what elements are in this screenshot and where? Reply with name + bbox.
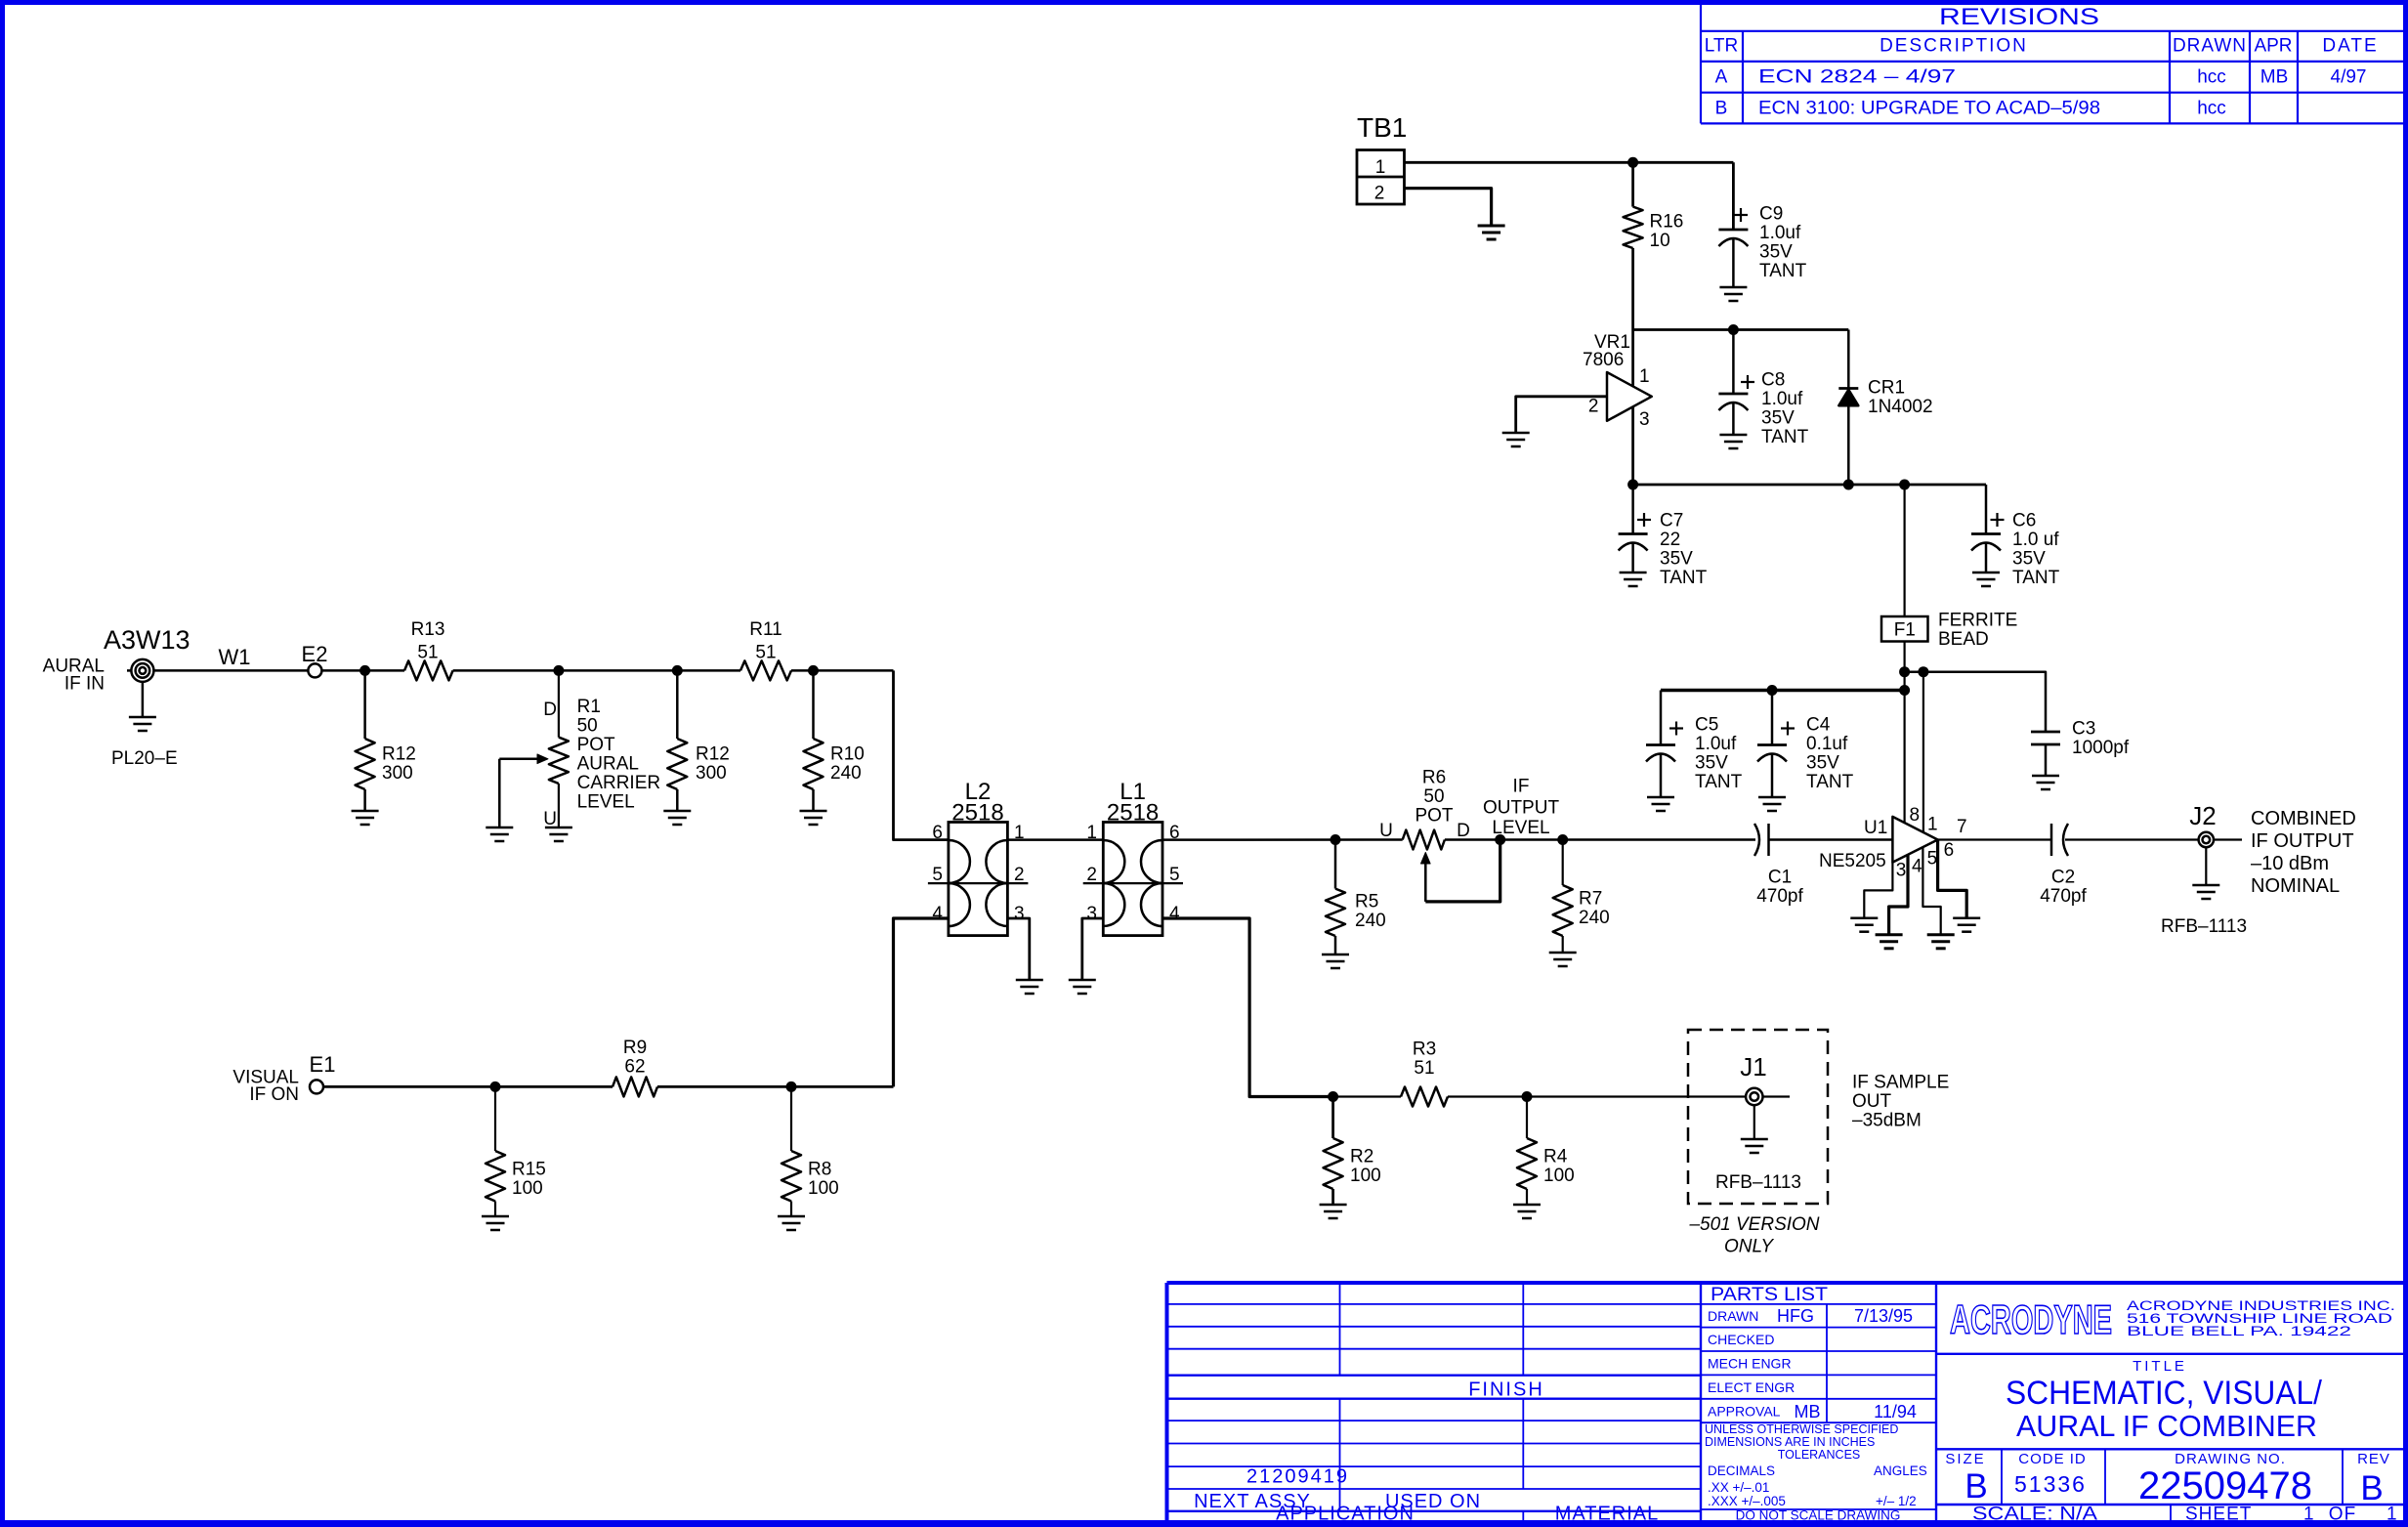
resistor R11 [740, 660, 791, 680]
svg-text:R8: R8 [808, 1160, 831, 1180]
svg-text:R6: R6 [1422, 768, 1446, 788]
wire +6V output rail [1633, 484, 1986, 487]
svg-text:11/94: 11/94 [1874, 1402, 1917, 1421]
voltage regulator VR1 7806 [1607, 372, 1652, 421]
svg-text:R12: R12 [696, 744, 730, 765]
potentiometer R1 [549, 738, 569, 784]
svg-text:2518: 2518 [951, 800, 1003, 827]
wire R2 to ground [1331, 1189, 1334, 1205]
ground R12b [663, 810, 691, 813]
capacitor C7 [1619, 532, 1648, 535]
wire R7 to ground [1562, 936, 1564, 953]
svg-text:51336: 51336 [2014, 1471, 2087, 1497]
ground U1 pin3 [1850, 916, 1878, 919]
svg-text:F1: F1 [1894, 620, 1916, 641]
svg-text:AURAL IF COMBINER: AURAL IF COMBINER [2016, 1409, 2317, 1443]
svg-text:470pf: 470pf [1756, 886, 1803, 907]
svg-text:REV: REV [2357, 1451, 2390, 1467]
wire R8 down [790, 1086, 792, 1151]
svg-text:C3: C3 [2072, 719, 2095, 740]
wire TB1 node to R16 [1631, 162, 1634, 206]
svg-text:IF OUTPUT: IF OUTPUT [2251, 830, 2354, 852]
svg-text:1.0uf: 1.0uf [1761, 389, 1803, 409]
J1 dashed option box [1688, 1030, 1828, 1204]
svg-text:100: 100 [808, 1178, 839, 1199]
resistor R2 [1324, 1138, 1343, 1189]
svg-text:HFG: HFG [1777, 1306, 1814, 1326]
capacitor C6 [1971, 532, 2001, 535]
VR1 label [1583, 332, 1630, 370]
resistor R16 [1624, 207, 1643, 248]
junction R8 [786, 1082, 797, 1092]
svg-text:COMBINED: COMBINED [2251, 808, 2356, 829]
svg-text:BEAD: BEAD [1938, 629, 1989, 650]
title block outer frame [1167, 1283, 2404, 1524]
L1 label [1107, 779, 1159, 827]
svg-text:6: 6 [1944, 840, 1955, 861]
ground A3W13 [129, 716, 156, 719]
svg-text:IF IN: IF IN [64, 674, 105, 695]
svg-text:C6: C6 [2012, 511, 2036, 531]
svg-text:–35dBM: –35dBM [1852, 1111, 1922, 1131]
C9 wire to ground [1732, 238, 1735, 287]
svg-text:R10: R10 [830, 744, 865, 765]
svg-text:240: 240 [1579, 908, 1610, 928]
svg-text:R1: R1 [577, 697, 601, 717]
svg-text:2: 2 [1588, 397, 1599, 417]
junction R6 wiper return [1495, 834, 1505, 845]
svg-text:7: 7 [1957, 817, 1967, 837]
REV cell [2357, 1451, 2390, 1507]
svg-text:LTR: LTR [1705, 36, 1738, 57]
CODE ID cell [2014, 1451, 2087, 1497]
junction R15 [490, 1082, 501, 1092]
transformer L2 [928, 823, 1029, 936]
svg-text:hcc: hcc [2197, 98, 2226, 118]
svg-text:TITLE: TITLE [2133, 1358, 2187, 1375]
svg-text:22509478: 22509478 [2138, 1464, 2312, 1507]
VISUAL IF ON label [232, 1068, 299, 1106]
wire L1 pin4 to sample line [1162, 918, 1333, 1097]
ground R4 [1513, 1204, 1541, 1207]
wire R6 wiper jog [1425, 840, 1500, 902]
svg-text:51: 51 [417, 643, 438, 663]
svg-text:2: 2 [1014, 865, 1025, 885]
wire R15 to ground [494, 1202, 496, 1217]
ground C9 [1719, 286, 1747, 289]
svg-text:OUTPUT: OUTPUT [1483, 798, 1560, 819]
connector J1 [1746, 1088, 1762, 1105]
wire J2 to ground [2205, 847, 2207, 885]
tolerance note block [1705, 1422, 1927, 1508]
svg-text:CARRIER: CARRIER [577, 773, 661, 793]
svg-text:100: 100 [1543, 1166, 1575, 1186]
junction supply rail end [1899, 685, 1910, 696]
wire TB1 pin2 to ground [1405, 189, 1492, 226]
svg-text:ECN 2824 – 4/97: ECN 2824 – 4/97 [1758, 67, 1956, 88]
svg-text:IF SAMPLE: IF SAMPLE [1852, 1073, 1949, 1093]
SIZE cell [1945, 1451, 1987, 1506]
svg-text:.XXX +/–.005: .XXX +/–.005 [1708, 1494, 1786, 1508]
resistor R13 [404, 660, 453, 680]
svg-text:2518: 2518 [1107, 800, 1159, 827]
svg-text:E2: E2 [302, 642, 328, 666]
svg-text:240: 240 [1355, 911, 1386, 931]
resistor R12 (right) [667, 739, 687, 789]
svg-text:NOMINAL: NOMINAL [2251, 875, 2340, 897]
parts list column grid [1701, 1283, 1936, 1524]
svg-text:DO NOT SCALE DRAWING: DO NOT SCALE DRAWING [1736, 1508, 1901, 1523]
svg-text:PL20–E: PL20–E [111, 748, 178, 769]
svg-text:4: 4 [1169, 904, 1180, 924]
wire CR1 to +6V rail [1847, 405, 1850, 485]
svg-text:100: 100 [512, 1178, 543, 1199]
ground J2 [2192, 884, 2219, 887]
svg-text:B: B [1964, 1467, 1987, 1506]
svg-text:U: U [1379, 821, 1393, 841]
wire R7 down [1562, 840, 1564, 886]
capacitor C3 [2031, 732, 2060, 744]
wire rail to F1 [1903, 485, 1905, 616]
svg-text:R5: R5 [1355, 892, 1378, 912]
junction R5 [1331, 834, 1341, 845]
svg-text:DIMENSIONS ARE IN INCHES: DIMENSIONS ARE IN INCHES [1705, 1435, 1875, 1449]
svg-text:U1: U1 [1864, 818, 1887, 838]
wire R4 to ground [1526, 1189, 1528, 1205]
junction VR1 out / C7 [1627, 480, 1638, 490]
terminal block TB1 [1357, 150, 1405, 205]
resistor R8 [782, 1151, 801, 1202]
wire R1 top lead [558, 670, 560, 737]
R11 value label [749, 619, 782, 663]
svg-text:APPLICATION: APPLICATION [1276, 1504, 1415, 1525]
svg-text:1000pf: 1000pf [2072, 738, 2130, 758]
svg-text:1: 1 [1639, 366, 1650, 387]
wire VR1 pin2 input [1516, 397, 1607, 433]
svg-text:A3W13: A3W13 [104, 625, 190, 655]
wire A3W13 stub left [127, 669, 131, 672]
DRAWN row [1708, 1306, 1913, 1326]
svg-text:RFB–1113: RFB–1113 [1715, 1172, 1801, 1193]
wire CR1 from input rail [1847, 330, 1850, 391]
svg-text:R11: R11 [749, 619, 782, 640]
ground C8 [1719, 434, 1747, 437]
svg-text:C1: C1 [1768, 868, 1792, 888]
svg-text:W1: W1 [219, 645, 251, 669]
wire C3 branch [1905, 672, 2046, 732]
svg-text:DECIMALS: DECIMALS [1708, 1463, 1775, 1478]
svg-text:R2: R2 [1350, 1147, 1373, 1167]
wire R2 node to R3 [1333, 1095, 1401, 1097]
svg-text:TANT: TANT [1761, 427, 1809, 447]
svg-text:POT: POT [577, 735, 615, 755]
svg-text:51: 51 [1414, 1058, 1434, 1079]
wire U1 pin8 supply [1903, 691, 1905, 824]
wire R8 to ground [790, 1202, 792, 1217]
svg-text:0.1uf: 0.1uf [1806, 734, 1848, 754]
ground C7 [1620, 572, 1647, 574]
ground C5 [1647, 796, 1674, 799]
wire E2 to R13 [321, 669, 404, 672]
R3 value label [1413, 1039, 1436, 1080]
svg-text:R16: R16 [1650, 211, 1684, 232]
wire J1 stub right [1763, 1095, 1791, 1097]
svg-text:240: 240 [830, 763, 862, 784]
svg-text:1: 1 [1375, 157, 1386, 178]
svg-text:22: 22 [1660, 530, 1680, 550]
svg-text:3: 3 [1014, 904, 1025, 924]
ground C6 [1972, 572, 2000, 574]
svg-text:51: 51 [755, 643, 776, 663]
wire R12a to ground [363, 789, 366, 811]
svg-text:SCHEMATIC, VISUAL/: SCHEMATIC, VISUAL/ [2006, 1375, 2323, 1412]
svg-text:50: 50 [1423, 786, 1444, 807]
svg-text:ECN 3100: UPGRADE TO ACAD–: ECN 3100: UPGRADE TO ACAD–5/98 [1758, 98, 2100, 118]
svg-text:RFB–1113: RFB–1113 [2161, 916, 2247, 937]
svg-text:IF: IF [1513, 777, 1530, 797]
svg-text:MECH ENGR: MECH ENGR [1708, 1356, 1792, 1372]
wire L1 pin3 to ground [1082, 918, 1104, 980]
ground R10 [800, 810, 827, 813]
svg-text:10: 10 [1650, 231, 1670, 251]
svg-text:APR: APR [2254, 36, 2292, 57]
wire R11 to corner [791, 669, 894, 672]
svg-text:62: 62 [624, 1057, 645, 1078]
ground L1 pin3 [1069, 979, 1096, 982]
svg-text:U: U [543, 809, 557, 829]
wire bypass rail C5-C4 [1661, 689, 1905, 692]
wire E1 to R9 [323, 1085, 613, 1088]
svg-text:R4: R4 [1543, 1147, 1568, 1167]
svg-text:300: 300 [382, 763, 413, 784]
revision row B [1715, 98, 2226, 118]
wire U1 output to C2 [1938, 838, 2051, 840]
wire J2 stub right [2214, 838, 2242, 840]
R9 value label [623, 1038, 647, 1078]
AURAL IF IN label [43, 657, 105, 695]
svg-text:R7: R7 [1579, 889, 1602, 910]
svg-text:MATERIAL: MATERIAL [1555, 1504, 1660, 1525]
svg-text:35V: 35V [1761, 408, 1795, 429]
svg-text:100: 100 [1350, 1166, 1381, 1186]
transformer L1 [1083, 823, 1183, 936]
resistor R7 [1553, 885, 1573, 936]
svg-text:A: A [1715, 67, 1728, 88]
svg-text:7806: 7806 [1583, 350, 1624, 370]
revision row A [1715, 67, 2367, 88]
resistor R4 [1517, 1138, 1537, 1189]
R6 value label [1415, 768, 1453, 827]
svg-text:TANT: TANT [2012, 568, 2060, 588]
wire R6 to C1 node [1445, 838, 1755, 841]
svg-text:7/13/95: 7/13/95 [1854, 1306, 1913, 1326]
wire VR1 pin3 to +6V rail [1631, 406, 1634, 485]
svg-text:PARTS LIST: PARTS LIST [1711, 1285, 1828, 1305]
svg-text:APPROVAL: APPROVAL [1708, 1404, 1781, 1420]
wire U1 pin3 to ground [1864, 863, 1892, 918]
resistor R5 [1326, 889, 1345, 936]
wire U1 pin1 supply [1922, 672, 1924, 832]
C5 polarity + [1669, 727, 1683, 729]
C9 polarity + [1734, 214, 1748, 216]
wire L2 pin1 to L1 pin1 [1007, 838, 1103, 841]
wire L2 pin3 to ground [1007, 918, 1029, 980]
C7 wire to ground [1631, 543, 1634, 573]
svg-text:21209419: 21209419 [1246, 1466, 1349, 1488]
-501 VERSION ONLY note [1688, 1214, 1819, 1257]
junction F1 rail [1899, 480, 1910, 490]
terminal E2 [308, 663, 321, 677]
C7 polarity + [1637, 519, 1651, 521]
svg-text:R15: R15 [512, 1160, 546, 1180]
wire C2 to J2 [2065, 838, 2199, 840]
svg-text:FERRITE: FERRITE [1938, 611, 2017, 631]
svg-text:2: 2 [1086, 865, 1097, 885]
C2 value label [2040, 868, 2087, 908]
svg-text:5: 5 [1169, 865, 1180, 885]
ground U1 pin6 [1953, 916, 1980, 919]
wire C6 from rail [1985, 485, 1988, 534]
capacitor C2 [2051, 824, 2068, 856]
svg-text:1N4002: 1N4002 [1868, 397, 1933, 417]
junction CR1 rail [1843, 480, 1854, 490]
svg-text:IF ON: IF ON [249, 1084, 299, 1105]
ground U1 pin4 [1876, 933, 1903, 936]
wire U1 pin6 to ground [1938, 840, 1967, 918]
svg-text:CHECKED: CHECKED [1708, 1332, 1774, 1347]
svg-text:1.0uf: 1.0uf [1759, 223, 1801, 243]
junction R12b [672, 665, 683, 676]
svg-text:D: D [1457, 821, 1470, 841]
svg-text:C7: C7 [1660, 511, 1683, 531]
C4 wire to ground [1771, 754, 1774, 797]
wire L1 pin6 to R5 node [1162, 838, 1403, 841]
resistor R3 [1401, 1087, 1448, 1107]
wire R10 to ground [812, 789, 815, 811]
wire R13 to R1 node [453, 669, 559, 672]
svg-text:DESCRIPTION: DESCRIPTION [1880, 36, 2028, 57]
wire R1 bottom lead [558, 784, 560, 827]
svg-text:4/97: 4/97 [2331, 67, 2367, 88]
wire R12b down [676, 670, 679, 739]
ground L2 pin3 [1016, 979, 1043, 982]
svg-text:MB: MB [2260, 67, 2289, 88]
wire L2 pin4 [894, 918, 949, 1086]
svg-text:+/– 1/2: +/– 1/2 [1876, 1494, 1917, 1508]
svg-text:FINISH: FINISH [1468, 1379, 1544, 1401]
ground R8 [778, 1215, 805, 1218]
junction R7 [1557, 834, 1568, 845]
svg-text:SIZE: SIZE [1945, 1451, 1985, 1467]
svg-text:LEVEL: LEVEL [577, 792, 635, 813]
wire TB1 pin1 to R16/C9 node [1405, 161, 1734, 164]
svg-text:1: 1 [1927, 815, 1938, 835]
junction R1 pot [553, 665, 564, 676]
svg-text:.XX +/–.01: .XX +/–.01 [1708, 1480, 1769, 1495]
resistor R10 [804, 739, 824, 789]
svg-text:4: 4 [1912, 857, 1922, 877]
svg-text:AURAL: AURAL [577, 754, 639, 775]
revisions header row [1705, 36, 2379, 57]
wire R16 to VR1 input node [1631, 248, 1634, 386]
svg-text:5: 5 [932, 865, 943, 885]
capacitor C1 [1754, 824, 1769, 856]
junction C8 tap [1728, 324, 1739, 335]
svg-text:ELECT ENGR: ELECT ENGR [1708, 1379, 1795, 1395]
wire R3 to J1 [1448, 1095, 1746, 1097]
potentiometer R6 [1403, 830, 1445, 850]
svg-text:–501 VERSION: –501 VERSION [1688, 1214, 1819, 1235]
svg-text:1: 1 [2387, 1505, 2397, 1525]
svg-text:CODE ID: CODE ID [2018, 1451, 2087, 1467]
ground R12a [352, 810, 379, 813]
svg-text:300: 300 [696, 763, 727, 784]
capacitor C9 [1718, 229, 1748, 232]
wire R15 down [494, 1086, 496, 1151]
wire C8 from rail [1732, 330, 1735, 395]
wire R5 down [1334, 840, 1337, 889]
DRAWING NO cell [2138, 1451, 2312, 1507]
svg-text:6: 6 [932, 823, 943, 843]
C8 wire to ground [1732, 403, 1735, 435]
wire A3W13 to E2 [153, 669, 308, 672]
wire C1 to U1 [1769, 838, 1893, 841]
svg-text:C4: C4 [1806, 715, 1831, 736]
svg-text:C2: C2 [2051, 868, 2075, 888]
junction F1/C3 node [1899, 666, 1910, 677]
svg-text:NE5205: NE5205 [1819, 851, 1886, 871]
svg-text:–10 dBm: –10 dBm [2251, 853, 2329, 874]
svg-text:TANT: TANT [1660, 568, 1708, 588]
connector A3W13 [131, 659, 153, 682]
revisions table grid [1701, 5, 2403, 123]
wire R9 to corner [657, 1085, 894, 1088]
C3 wire to ground [2045, 744, 2048, 776]
svg-text:J2: J2 [2189, 801, 2216, 830]
wire C5 from rail [1660, 691, 1663, 745]
junction pin1 branch [1918, 666, 1928, 677]
wire A3W13 to ground [142, 682, 145, 717]
amplifier U1 NE5205 [1892, 817, 1937, 863]
ferrite bead F1 [1881, 616, 1928, 642]
svg-text:R9: R9 [623, 1038, 647, 1058]
ground C4 [1758, 796, 1786, 799]
svg-text:1.0uf: 1.0uf [1695, 734, 1737, 754]
svg-text:hcc: hcc [2197, 67, 2226, 88]
ground TB1 pin2 [1478, 225, 1505, 228]
C1 value label [1756, 868, 1803, 908]
svg-text:DATE: DATE [2322, 36, 2378, 57]
junction R4 [1522, 1091, 1533, 1102]
wire down to C9 [1732, 162, 1735, 230]
wire U1 pin4 to ground [1889, 855, 1908, 935]
svg-text:UNLESS OTHERWISE SPECIFIED: UNLESS OTHERWISE SPECIFIED [1705, 1422, 1898, 1436]
title area grid [1936, 1354, 2403, 1524]
svg-text:J1: J1 [1740, 1052, 1766, 1082]
junction C4 tap [1767, 685, 1778, 696]
R13 value label [411, 619, 445, 663]
wire VR1 input rail [1633, 328, 1849, 331]
svg-text:4: 4 [932, 904, 943, 924]
C6 wire to ground [1985, 543, 1988, 573]
svg-text:C9: C9 [1759, 204, 1783, 225]
ground U1 pin5 [1927, 933, 1955, 936]
svg-text:8: 8 [1910, 805, 1921, 826]
svg-text:SHEET: SHEET [2185, 1505, 2252, 1525]
capacitor C5 [1646, 743, 1675, 746]
svg-text:R13: R13 [411, 619, 445, 640]
SHEET cell [2185, 1505, 2397, 1525]
